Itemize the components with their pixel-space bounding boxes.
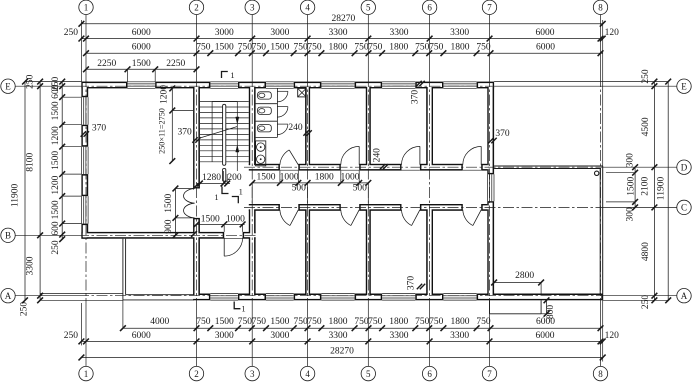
svg-text:2250: 2250 [166,59,185,69]
svg-text:250: 250 [641,295,651,310]
svg-text:4: 4 [305,369,310,379]
svg-text:11900: 11900 [11,183,21,207]
svg-text:3300: 3300 [390,331,409,341]
svg-text:1500: 1500 [51,200,61,219]
svg-text:2: 2 [194,369,199,379]
svg-text:3300: 3300 [329,28,348,38]
svg-text:200: 200 [227,173,242,183]
svg-text:1800: 1800 [451,42,470,52]
svg-text:6: 6 [427,3,432,13]
svg-text:750: 750 [415,317,430,327]
svg-text:1000: 1000 [341,173,360,183]
svg-text:300: 300 [626,207,636,222]
svg-text:1: 1 [84,369,89,379]
svg-text:600: 600 [51,221,61,236]
svg-text:750: 750 [476,317,491,327]
svg-text:750: 750 [368,317,383,327]
svg-text:3: 3 [250,3,255,13]
svg-text:750: 750 [307,317,322,327]
svg-text:750: 750 [354,317,369,327]
svg-text:3300: 3300 [26,256,36,275]
svg-text:3000: 3000 [215,331,234,341]
svg-text:1500: 1500 [201,215,220,225]
svg-text:370: 370 [92,124,107,134]
svg-text:1000: 1000 [280,173,299,183]
svg-text:120: 120 [605,28,620,38]
svg-text:3300: 3300 [390,28,409,38]
svg-text:1: 1 [84,3,89,13]
svg-text:750: 750 [196,42,211,52]
svg-text:4: 4 [305,3,310,13]
svg-text:1800: 1800 [389,317,408,327]
svg-text:370: 370 [411,90,421,105]
svg-text:1500: 1500 [215,317,234,327]
svg-text:1: 1 [241,304,245,314]
svg-text:250: 250 [20,302,30,317]
svg-text:5: 5 [366,3,371,13]
svg-text:6000: 6000 [132,42,151,52]
svg-text:E: E [5,81,11,91]
svg-text:240: 240 [288,123,303,133]
svg-text:370: 370 [407,276,417,291]
svg-text:2250: 2250 [97,59,116,69]
svg-text:28270: 28270 [330,347,354,357]
svg-text:900: 900 [164,219,174,234]
svg-text:120: 120 [605,331,620,341]
svg-text:370: 370 [177,128,192,138]
svg-text:1800: 1800 [451,317,470,327]
svg-text:250: 250 [26,74,36,89]
svg-text:250: 250 [51,240,61,255]
svg-text:1500: 1500 [51,151,61,170]
svg-text:300: 300 [626,153,636,168]
svg-text:4000: 4000 [150,317,169,327]
svg-text:D: D [681,162,688,172]
svg-text:1500: 1500 [257,173,276,183]
svg-text:2100: 2100 [640,176,650,195]
svg-text:1200: 1200 [159,85,169,104]
svg-text:500: 500 [353,184,368,194]
svg-text:750: 750 [293,42,308,52]
svg-text:750: 750 [368,42,383,52]
svg-text:3300: 3300 [450,28,469,38]
svg-text:250: 250 [64,28,79,38]
svg-text:1500: 1500 [270,317,289,327]
svg-text:1500: 1500 [164,193,174,212]
svg-text:1800: 1800 [315,173,334,183]
svg-text:250: 250 [641,69,651,84]
svg-text:1: 1 [214,192,218,202]
svg-text:1800: 1800 [329,317,348,327]
svg-text:3300: 3300 [329,331,348,341]
svg-text:250: 250 [64,331,79,341]
svg-text:6000: 6000 [536,42,555,52]
svg-text:2: 2 [194,3,199,13]
svg-text:1800: 1800 [389,42,408,52]
svg-text:1000: 1000 [226,215,245,225]
svg-text:4800: 4800 [641,242,651,261]
svg-text:4500: 4500 [641,117,651,136]
svg-text:370: 370 [495,129,510,139]
svg-text:750: 750 [476,42,491,52]
svg-text:E: E [681,81,687,91]
svg-text:750: 750 [252,317,267,327]
svg-text:6000: 6000 [536,28,555,38]
svg-text:8100: 8100 [26,153,36,172]
svg-text:500: 500 [292,184,307,194]
svg-text:7: 7 [487,369,492,379]
svg-text:6000: 6000 [132,331,151,341]
svg-text:1280: 1280 [202,173,221,183]
svg-text:1500: 1500 [215,42,234,52]
svg-text:750: 750 [415,42,430,52]
svg-text:750: 750 [429,317,444,327]
svg-text:750: 750 [252,42,267,52]
svg-text:750: 750 [293,317,308,327]
svg-text:B: B [5,231,11,241]
svg-text:5: 5 [366,369,371,379]
svg-text:750: 750 [238,42,253,52]
svg-text:2800: 2800 [515,271,534,281]
svg-text:1500: 1500 [270,42,289,52]
svg-text:1200: 1200 [51,126,61,145]
svg-text:3000: 3000 [215,28,234,38]
svg-text:1800: 1800 [329,42,348,52]
svg-text:6: 6 [427,369,432,379]
svg-text:240: 240 [372,148,382,163]
svg-text:8: 8 [598,3,603,13]
svg-text:28270: 28270 [332,14,356,24]
svg-text:750: 750 [429,42,444,52]
svg-text:3300: 3300 [450,331,469,341]
svg-text:600: 600 [51,84,61,99]
svg-text:6000: 6000 [536,331,555,341]
svg-text:1200: 1200 [51,175,61,194]
svg-text:6000: 6000 [132,28,151,38]
svg-text:A: A [5,291,12,301]
svg-text:250×11=2750: 250×11=2750 [157,108,166,154]
svg-text:8: 8 [598,369,603,379]
svg-text:A: A [681,291,688,301]
svg-text:750: 750 [354,42,369,52]
svg-text:C: C [681,203,687,213]
svg-text:1: 1 [230,70,234,80]
svg-text:3000: 3000 [270,331,289,341]
svg-text:1500: 1500 [51,101,61,120]
svg-text:7: 7 [487,3,492,13]
svg-text:750: 750 [307,42,322,52]
svg-text:800: 800 [546,305,556,320]
svg-text:750: 750 [196,317,211,327]
svg-text:11900: 11900 [657,177,667,201]
svg-text:1: 1 [239,187,243,197]
svg-text:750: 750 [238,317,253,327]
svg-text:3: 3 [250,369,255,379]
svg-text:1500: 1500 [132,59,151,69]
svg-text:1500: 1500 [627,177,637,196]
svg-text:3000: 3000 [270,28,289,38]
